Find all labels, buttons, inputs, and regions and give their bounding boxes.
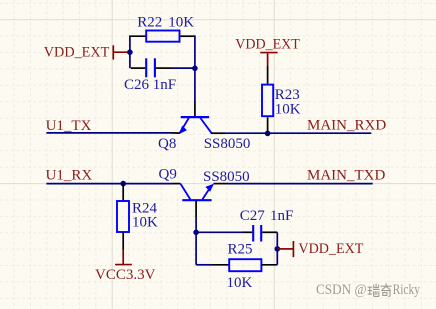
wire C27 corner down to junction F: [276, 232, 278, 249]
wire junction F down to R25 pin2: [276, 249, 278, 265]
transistor Q9: [181, 184, 214, 217]
svg-text:VDD_EXT: VDD_EXT: [235, 37, 299, 53]
wire Q8 collector to MAIN_RXD: [211, 132, 371, 134]
svg-text:C27: C27: [240, 208, 266, 224]
svg-text:VCC3.3V: VCC3.3V: [95, 267, 156, 283]
resistor R23: [262, 66, 273, 134]
svg-text:R25: R25: [228, 241, 253, 257]
junction A (VDD_EXT / R22 / C26 node): [127, 49, 133, 55]
resistor R25: [212, 259, 277, 271]
junction D (U1_RX / R24 node): [120, 181, 126, 187]
svg-text:R22: R22: [137, 14, 162, 30]
resistor R24: [117, 184, 129, 250]
wire Q9 base down to junction E: [195, 217, 197, 232]
wire C26 to junction B: [172, 67, 195, 69]
svg-text:VDD_EXT: VDD_EXT: [298, 241, 363, 257]
capacitor C27: [243, 225, 278, 242]
power port VDD_EXT (bottom right): [277, 241, 363, 257]
resistor R22: [130, 31, 195, 42]
wire U1_TX to Q8 emitter: [46, 132, 179, 134]
wire junction E down to R25 pin1: [196, 232, 212, 264]
svg-text:10K: 10K: [132, 214, 158, 230]
svg-text:Ricky: Ricky: [393, 282, 421, 298]
svg-text:VDD_EXT: VDD_EXT: [44, 45, 110, 61]
wire right vertical (R22 pin2 to C26 node): [194, 35, 196, 68]
svg-text:CSDN @: CSDN @: [316, 282, 367, 298]
svg-text:10K: 10K: [227, 275, 253, 291]
wire junction E to C27: [196, 231, 242, 233]
watermark CSDN @RuiQi Ricky: [316, 282, 420, 298]
svg-text:MAIN_TXD: MAIN_TXD: [307, 168, 385, 184]
svg-text:MAIN_RXD: MAIN_RXD: [307, 118, 386, 134]
power port VDD_EXT (left): [44, 45, 130, 61]
svg-text:10K: 10K: [168, 14, 194, 30]
junction E (Q9 base / C27 / R25 node): [193, 230, 199, 236]
transistor Q8: [179, 101, 212, 134]
wire Q9 emitter to MAIN_TXD: [214, 183, 373, 185]
svg-text:SS8050: SS8050: [204, 136, 251, 152]
wire junction B down to Q8 base: [194, 68, 196, 101]
junction C (R23 / MAIN_RXD node): [265, 131, 271, 137]
svg-text:Q9: Q9: [159, 167, 177, 183]
svg-text:10K: 10K: [275, 101, 301, 117]
svg-text:U1_RX: U1_RX: [46, 168, 93, 184]
svg-text:C26 1nF: C26 1nF: [124, 77, 176, 93]
svg-text:1nF: 1nF: [270, 208, 293, 224]
svg-text:U1_TX: U1_TX: [46, 118, 92, 134]
svg-text:Q8: Q8: [158, 136, 176, 152]
power port VCC3.3V: [95, 250, 156, 283]
wire left vertical (R22 pin1 to C26): [129, 35, 131, 68]
junction F (C27 / R25 / VDD_EXT node): [275, 246, 281, 252]
capacitor C26: [131, 58, 172, 77]
wire U1_RX to Q9: [46, 183, 180, 185]
power port VDD_EXT (top, above R23): [235, 37, 299, 66]
junction B (R22/C26/Q8 base node): [192, 66, 198, 72]
